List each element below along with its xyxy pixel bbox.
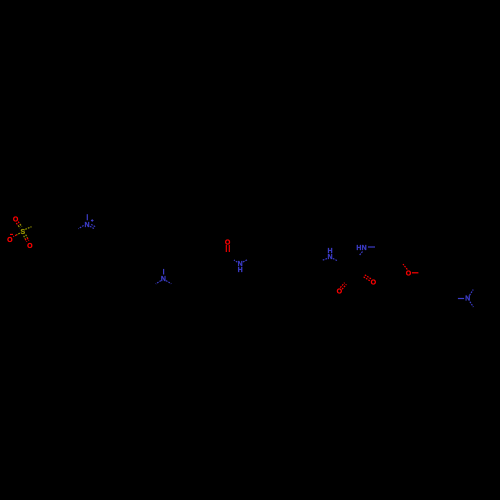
svg-text:O: O (337, 289, 343, 296)
bond S-C (25, 227, 31, 230)
oxygen O (right ketone) (371, 279, 377, 286)
svg-text:O: O (27, 243, 33, 250)
bond N-C right (central) (333, 259, 338, 261)
bond O-C (ether right) (412, 272, 419, 274)
bond C=O double (amide) (226, 245, 229, 252)
minus charge (10, 233, 13, 235)
oxygen O1 (sulfonate top) (13, 217, 19, 224)
svg-text:O: O (13, 217, 19, 224)
bond N-C right (carbazole) (166, 281, 171, 284)
bond C-N (amide left) (234, 260, 237, 262)
bond N-C down-right (470, 302, 474, 307)
oxygen O (left ketone) (337, 289, 343, 296)
svg-text:O: O (406, 271, 412, 278)
bond C-N vertical (carbazole) (163, 269, 165, 275)
bond N-C down (360, 252, 363, 256)
svg-text:N: N (84, 222, 89, 229)
bond C=O double (right ketone) (364, 275, 372, 281)
nitrogen N-H (amide) (238, 261, 243, 274)
nitrogen H-N (central right) (356, 245, 366, 252)
nitrogen N-H (central left) (327, 248, 332, 261)
nitrogen N (dimethylamine) (465, 296, 470, 303)
bond C-O (ether up-left) (403, 264, 407, 269)
bond S=O1 double (16, 222, 22, 228)
bond S=O3 double (24, 235, 29, 242)
svg-text:N: N (465, 296, 470, 303)
oxygen O3 (sulfonate bottom) (27, 243, 33, 250)
bond N-C left (carbazole) (156, 281, 161, 284)
svg-text:N: N (362, 245, 367, 252)
bond C-N (amine left horizontal) (458, 298, 464, 300)
svg-text:O: O (371, 279, 377, 286)
nitrogen N (carbazole) (161, 276, 166, 283)
svg-text:O: O (7, 237, 13, 244)
bond N-C right horizontal (368, 246, 375, 248)
bond N-C left (central) (322, 259, 327, 261)
bond N-C up-right (470, 290, 474, 296)
svg-text:S: S (20, 229, 25, 236)
svg-text:N: N (327, 254, 332, 261)
nitrogen N+ (indolium) (84, 222, 89, 229)
oxygen O (ether) (406, 271, 412, 278)
sulfur S (20, 229, 25, 236)
bond S-O2 single (13, 233, 19, 237)
oxygen O2 (sulfonate O-) (7, 237, 13, 244)
svg-text:N: N (161, 276, 166, 283)
bond N+-C left (78, 226, 83, 229)
oxygen O (amide carbonyl) (225, 240, 231, 247)
bond C=O double (left ketone) (340, 283, 346, 290)
bond C-N+ vertical (86, 214, 88, 220)
svg-text:H: H (238, 267, 243, 274)
bond C=N+ double right (90, 224, 96, 229)
plus charge (91, 219, 94, 222)
bond N-C (amide right) (243, 259, 248, 262)
